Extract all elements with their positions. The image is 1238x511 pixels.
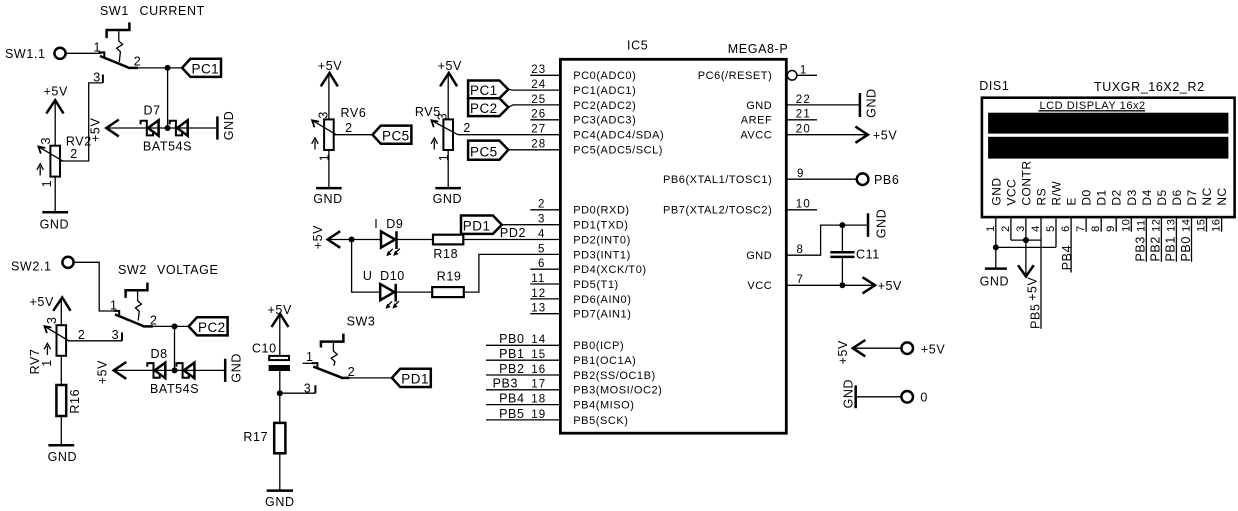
svg-text:2: 2: [134, 55, 142, 69]
resistor R16 body: [56, 385, 66, 416]
power +5V right arrow at pin 7: [863, 277, 876, 293]
svg-text:R16: R16: [68, 389, 82, 414]
svg-text:PD3(INT1): PD3(INT1): [573, 249, 631, 261]
capacitor C10 plate+: [269, 356, 289, 360]
svg-text:PD1: PD1: [463, 218, 491, 233]
svg-text:8: 8: [1090, 225, 1102, 232]
diode D8b schottky cathode: [176, 363, 188, 378]
svg-text:GND: GND: [40, 218, 70, 232]
wire D7 row: [106, 127, 217, 129]
svg-text:D9: D9: [386, 217, 403, 231]
wire LCD pin 7: [1085, 217, 1087, 232]
svg-text:PC1(ADC1): PC1(ADC1): [573, 85, 636, 97]
svg-text:SW2.1: SW2.1: [11, 260, 52, 274]
LED D9 emission arrows: [387, 249, 393, 254]
wire RV6 wiper to PC5: [334, 134, 373, 136]
svg-text:1: 1: [40, 359, 54, 367]
svg-text:D7: D7: [1185, 189, 1199, 205]
pad 0: [901, 391, 913, 403]
display DIS1 row 1 glass: [988, 113, 1228, 134]
resistor R17 body: [274, 423, 285, 453]
svg-text:VCC: VCC: [747, 280, 772, 292]
switch SW2 name label: [118, 263, 218, 277]
svg-text:CONTR: CONTR: [1019, 160, 1033, 205]
switch SW3 pin3 contact: [314, 385, 316, 393]
svg-text:1: 1: [40, 180, 54, 188]
svg-text:16: 16: [531, 364, 546, 376]
svg-text:3: 3: [112, 328, 120, 342]
svg-text:PB4: PB4: [499, 392, 524, 406]
svg-text:MEGA8-P: MEGA8-P: [728, 42, 788, 56]
svg-text:9: 9: [1105, 225, 1117, 232]
wire D9 to R18: [397, 239, 434, 241]
svg-text:D0: D0: [1080, 189, 1094, 205]
svg-text:+5V: +5V: [311, 225, 325, 249]
wire +5V to LED D9: [328, 239, 381, 241]
potentiometer RV7 pin1 arrow: [46, 346, 48, 355]
svg-text:GND: GND: [842, 379, 856, 409]
switch SW3 actuator bracket: [321, 334, 344, 348]
svg-text:D10: D10: [380, 269, 405, 283]
svg-text:PB2: PB2: [1149, 236, 1163, 261]
svg-text:AREF: AREF: [741, 115, 773, 127]
svg-text:+5V: +5V: [878, 279, 902, 293]
switch SW2 pin2 contact: [143, 325, 153, 328]
ground below RV5: [435, 187, 461, 190]
svg-text:R18: R18: [433, 247, 458, 261]
wire LCD pin 3: [1025, 217, 1027, 240]
diode D8a schottky cathode: [147, 363, 159, 378]
svg-text:PB0(ICP): PB0(ICP): [573, 340, 624, 352]
net flag PC5 at IC: [468, 141, 508, 160]
svg-text:TUXGR_16X2_R2: TUXGR_16X2_R2: [1094, 80, 1205, 94]
wire RV2 pin1 to ground: [54, 177, 56, 212]
wire node to SW3 pin3: [280, 392, 316, 394]
svg-text:3: 3: [45, 316, 59, 324]
wire LCD pin 8: [1100, 217, 1102, 232]
svg-text:BAT54S: BAT54S: [143, 140, 192, 154]
svg-text:2: 2: [348, 365, 356, 379]
svg-text:+5V: +5V: [1026, 276, 1040, 300]
junction dot D7 center: [165, 125, 171, 131]
net flag PD1 at IC: [461, 216, 502, 234]
switch SW2 lever: [115, 314, 144, 326]
svg-text:D8: D8: [151, 347, 168, 361]
svg-text:3: 3: [316, 111, 330, 119]
svg-text:R17: R17: [243, 430, 268, 444]
switch SW1 actuator bracket: [107, 22, 130, 38]
svg-text:PB1: PB1: [499, 347, 524, 361]
potentiometer RV6 pin1 arrow: [314, 141, 316, 150]
svg-text:0: 0: [920, 391, 928, 405]
svg-text:+5V: +5V: [873, 129, 897, 143]
resistor R19 body: [432, 287, 464, 297]
pad SW1.1: [54, 48, 65, 59]
svg-text:+5V: +5V: [96, 360, 110, 384]
junction dot LED supply node: [349, 237, 355, 243]
switch SW2 spring linkage: [135, 291, 141, 320]
ground below R17: [267, 489, 293, 492]
ground at D8 (rotated): [224, 359, 227, 382]
switch SW2 actuator bracket: [126, 283, 148, 298]
svg-text:24: 24: [531, 79, 546, 91]
svg-text:6: 6: [538, 258, 546, 270]
wire LCD pin 2: [1010, 217, 1012, 240]
wire LCD pin 15: [1206, 217, 1208, 232]
wire SW2.1 to SW2 pin 1: [74, 262, 113, 311]
svg-text:GND: GND: [313, 192, 343, 206]
switch SW1 pin2 contact: [128, 67, 138, 70]
svg-text:PD1(TXD): PD1(TXD): [573, 220, 628, 232]
wire PC2 flag to IC pin 25: [508, 105, 560, 107]
svg-text:PB1: PB1: [1164, 236, 1178, 261]
svg-text:28: 28: [531, 139, 546, 151]
svg-text:PC5(ADC5/SCL): PC5(ADC5/SCL): [573, 145, 663, 157]
ground below R16: [48, 444, 74, 447]
svg-text:PC3(ADC3): PC3(ADC3): [573, 115, 636, 127]
svg-text:13: 13: [531, 303, 546, 315]
LED D10 body: [380, 284, 394, 300]
switch SW3 spring linkage: [331, 343, 337, 366]
svg-text:1: 1: [800, 64, 808, 76]
wire stub pin 1: [797, 74, 817, 76]
wire C10 to node SW3.3: [279, 371, 281, 423]
svg-text:11: 11: [531, 273, 545, 285]
wire pin 7 to +5V: [786, 284, 874, 286]
svg-text:9: 9: [797, 168, 805, 180]
svg-text:BAT54S: BAT54S: [150, 382, 199, 396]
LED D10 emission arrows: [387, 302, 393, 307]
svg-text:PC2(ADC2): PC2(ADC2): [573, 100, 636, 112]
svg-text:2: 2: [78, 328, 86, 342]
wire stub pin 11: [530, 283, 560, 285]
diode D8a body: [155, 363, 166, 379]
svg-text:20: 20: [796, 124, 811, 136]
svg-text:PB3: PB3: [493, 377, 518, 391]
wire stub net PB0 pin 14: [486, 344, 560, 346]
svg-text:5: 5: [538, 243, 546, 255]
svg-text:12: 12: [1150, 219, 1162, 232]
svg-text:C10: C10: [252, 341, 277, 355]
potentiometer RV6 wiper arrow: [313, 121, 336, 135]
pad +5V: [901, 342, 913, 354]
wire SW2 pin3 to RV7 wiper: [68, 340, 122, 342]
ground at pin 22 (rotated): [859, 93, 862, 117]
svg-text:D3: D3: [1125, 189, 1139, 205]
svg-text:7: 7: [797, 274, 805, 286]
svg-text:R/W: R/W: [1050, 181, 1064, 206]
svg-text:PB5(SCK): PB5(SCK): [573, 415, 628, 427]
wire LCD pin 10: [1130, 217, 1132, 232]
svg-text:PC5: PC5: [470, 144, 498, 159]
wire SW2 pin2 to node PC2: [152, 325, 189, 327]
svg-text:PD0(RXD): PD0(RXD): [573, 205, 629, 217]
wire PC1 flag to IC pin 24: [508, 88, 560, 91]
potentiometer RV7 body: [57, 325, 67, 356]
svg-text:26: 26: [531, 109, 546, 121]
svg-text:D4: D4: [1140, 189, 1154, 205]
svg-text:3: 3: [304, 381, 312, 395]
diode D7b schottky cathode: [170, 121, 182, 136]
net flag PC5 at RV6: [373, 126, 412, 144]
junction dot C11 top: [839, 222, 845, 228]
svg-text:4: 4: [1030, 225, 1042, 232]
net flag PC1 at SW1: [182, 59, 221, 77]
svg-text:DIS1: DIS1: [979, 79, 1009, 93]
svg-text:PD2(INT0): PD2(INT0): [573, 234, 631, 246]
switch SW3 lever: [313, 367, 341, 378]
potentiometer RV2 pin1 arrow: [39, 167, 41, 176]
pad SW2.1: [62, 257, 73, 268]
svg-text:PB0: PB0: [499, 332, 524, 346]
wire LCD pin 4 net PB5: [1040, 217, 1042, 329]
wire LCD pin 16: [1221, 217, 1223, 232]
wire R16 to ground: [60, 416, 62, 445]
switch SW1 pin3 contact: [102, 75, 104, 83]
wire SW1.1 to SW1 pin 1: [66, 52, 101, 54]
wire +5V to C10: [279, 315, 281, 356]
display DIS1 row 2 glass: [988, 137, 1228, 159]
svg-text:PB7(XTAL2/TOSC2): PB7(XTAL2/TOSC2): [663, 205, 772, 217]
wire pin 22 to ground: [786, 104, 860, 106]
wire +5V to RV7 pin3: [60, 298, 62, 325]
wire stub pin 13: [530, 313, 560, 315]
wire PC5 flag to IC pin 28: [508, 149, 560, 151]
potentiometer RV7 wiper arrow: [46, 327, 69, 341]
svg-text:4: 4: [538, 228, 546, 240]
svg-text:RV5: RV5: [415, 105, 441, 119]
LED D10 cathode bar: [394, 284, 397, 302]
svg-text:AVCC: AVCC: [740, 130, 772, 142]
net flag PC1 at IC: [468, 81, 508, 99]
wire +5V to RV6 pin3: [328, 74, 330, 120]
svg-text:PC1: PC1: [470, 83, 498, 98]
wire LCD pin 9: [1115, 217, 1117, 232]
wire stub pin 26: [530, 119, 560, 121]
svg-text:PB4(MISO): PB4(MISO): [573, 400, 634, 412]
wire node PC2 down to D8: [174, 326, 176, 370]
svg-text:PB0: PB0: [1179, 236, 1193, 261]
diode D8b body: [184, 363, 195, 379]
wire stub net PB3 pin 17: [486, 389, 560, 391]
ground at pin 8 (rotated): [867, 213, 870, 237]
wire RV6 pin1 to ground: [328, 150, 330, 188]
svg-text:5: 5: [1045, 225, 1057, 232]
svg-text:15: 15: [1196, 219, 1208, 232]
wire LCD pin 6 net PB4: [1070, 217, 1072, 273]
svg-text:+5V: +5V: [30, 295, 54, 309]
svg-text:PB4: PB4: [1060, 245, 1074, 270]
svg-text:GND: GND: [746, 250, 772, 262]
svg-text:22: 22: [796, 94, 811, 106]
svg-text:21: 21: [796, 109, 811, 121]
svg-text:D2: D2: [1110, 189, 1124, 205]
wire LCD ground rail: [996, 246, 1056, 248]
svg-text:RV6: RV6: [341, 106, 367, 120]
wire pin 8 to ground/C11: [786, 225, 868, 255]
wire SW1 pin3 to RV2 wiper: [60, 83, 103, 161]
svg-text:GND: GND: [980, 275, 1010, 289]
wire C11 top lead: [841, 225, 843, 251]
svg-text:2: 2: [150, 314, 158, 328]
svg-text:IC5: IC5: [627, 39, 648, 53]
svg-text:GND: GND: [746, 100, 772, 112]
wire stub pin 10: [786, 209, 817, 211]
wire SW3 pin2 to PD1: [349, 377, 393, 379]
svg-text:2: 2: [463, 121, 471, 135]
diode D7b body: [177, 120, 188, 136]
svg-text:2: 2: [70, 147, 78, 161]
capacitor C11 plates: [830, 251, 854, 254]
svg-text:PB1(OC1A): PB1(OC1A): [573, 355, 636, 367]
svg-text:3: 3: [1015, 225, 1027, 232]
svg-text:PD6(AIN0): PD6(AIN0): [573, 294, 631, 306]
switch SW3 pin2 contact: [341, 377, 350, 380]
svg-text:SW3: SW3: [347, 315, 376, 329]
svg-text:2: 2: [538, 199, 546, 211]
switch SW1 lever: [100, 56, 129, 68]
wire LCD pin 14 net PB0: [1191, 217, 1193, 262]
svg-text:U: U: [363, 269, 373, 283]
svg-text:14: 14: [531, 334, 546, 346]
svg-text:12: 12: [531, 288, 546, 300]
junction dot node PC2: [172, 323, 178, 329]
svg-text:PD5(T1): PD5(T1): [573, 279, 618, 291]
svg-text:11: 11: [1135, 219, 1147, 232]
potentiometer RV5 pin1 arrow: [433, 141, 435, 150]
wire stub pin 2: [530, 209, 560, 211]
svg-text:PC5: PC5: [382, 129, 410, 144]
svg-text:CURRENT: CURRENT: [140, 4, 205, 18]
capacitor C10 plate-: [269, 365, 290, 371]
junction dot node SW3.3: [277, 390, 283, 396]
svg-text:PB5: PB5: [1028, 303, 1042, 328]
wire LCD pin 13 net PB1: [1175, 217, 1177, 262]
svg-text:NC: NC: [1200, 187, 1214, 205]
ground at D7 (rotated): [216, 116, 219, 139]
power +5V right arrow at pin 20: [855, 127, 868, 143]
junction dot D8 center: [172, 367, 178, 373]
switch SW2 pin3 contact: [121, 333, 123, 341]
svg-text:14: 14: [1181, 219, 1193, 232]
svg-text:SW1: SW1: [100, 4, 129, 18]
LED D9 body: [381, 231, 395, 247]
svg-text:GND: GND: [433, 192, 463, 206]
wire LCD pin 5: [1055, 217, 1057, 247]
svg-text:PC0(ADC0): PC0(ADC0): [573, 70, 636, 82]
svg-text:+5V: +5V: [44, 85, 68, 99]
potentiometer RV6 body: [324, 119, 334, 150]
potentiometer RV5 body: [443, 119, 453, 150]
svg-text:C11: C11: [856, 247, 880, 261]
wire RV5 pin1 to ground: [447, 150, 449, 188]
svg-text:3: 3: [538, 214, 546, 226]
wire LCD pin 1 to ground: [995, 217, 997, 269]
wire R19 to IC pin 5: [464, 254, 561, 292]
wire RV5 wiper to IC pin 27: [458, 134, 561, 136]
svg-text:VCC: VCC: [1004, 179, 1018, 206]
svg-text:GND: GND: [989, 177, 1003, 205]
wire +5V arrow to pad: [853, 347, 901, 349]
potentiometer RV5 wiper arrow: [433, 121, 458, 135]
svg-text:8: 8: [797, 244, 805, 256]
svg-text:D1: D1: [1095, 189, 1109, 205]
svg-text:SW1.1: SW1.1: [5, 47, 46, 61]
svg-text:GND: GND: [48, 450, 78, 464]
svg-text:GND: GND: [265, 495, 295, 509]
svg-text:13: 13: [1165, 219, 1177, 232]
wire stub net PB5 pin 19: [486, 419, 560, 421]
svg-text:GND: GND: [874, 209, 888, 239]
wire pin 20 to +5V: [786, 134, 867, 136]
svg-text:16: 16: [1211, 219, 1223, 232]
svg-text:GND: GND: [865, 88, 879, 118]
wire stub pin 12: [530, 298, 560, 300]
svg-text:7: 7: [1075, 225, 1087, 232]
svg-text:NC: NC: [1215, 187, 1229, 205]
LED D9 cathode bar: [395, 231, 398, 249]
switch SW1 spring linkage: [117, 31, 123, 62]
svg-text:18: 18: [531, 394, 546, 406]
wire stub pin 23: [530, 74, 560, 76]
svg-text:PD1: PD1: [401, 372, 429, 387]
svg-text:1: 1: [985, 225, 997, 232]
svg-text:PC4(ADC4/SDA): PC4(ADC4/SDA): [573, 130, 664, 142]
wire LCD VCC rail: [1011, 239, 1041, 241]
wire stub net PB4 pin 18: [486, 404, 560, 406]
svg-text:VOLTAGE: VOLTAGE: [157, 263, 218, 277]
svg-text:PD2: PD2: [500, 226, 526, 240]
wire PD1 flag to IC pin 3: [502, 224, 561, 226]
pad PB6: [857, 173, 869, 185]
svg-text:3: 3: [39, 137, 53, 145]
wire stub pin 21: [786, 119, 817, 121]
svg-text:D6: D6: [1170, 189, 1184, 205]
svg-text:+5V: +5V: [438, 59, 462, 73]
wire R18 to IC pin 4: [463, 239, 560, 241]
svg-text:GND: GND: [230, 353, 244, 383]
svg-text:PB2(SS/OC1B): PB2(SS/OC1B): [573, 370, 655, 382]
net flag PD1 at SW3: [392, 369, 431, 387]
wire R17 to ground: [279, 453, 281, 490]
display DIS1 body: [982, 98, 1235, 217]
wire stub net PB1 pin 15: [486, 359, 560, 361]
svg-text:2: 2: [345, 121, 353, 135]
svg-text:SW2: SW2: [118, 263, 147, 277]
svg-text:10: 10: [1120, 219, 1132, 232]
svg-text:10: 10: [796, 199, 811, 211]
resistor R18 body: [433, 235, 463, 245]
wire SW1 pin2 to node PC1: [137, 67, 183, 69]
svg-text:D7: D7: [144, 104, 161, 118]
svg-text:E: E: [1065, 197, 1079, 206]
svg-text:17: 17: [531, 379, 546, 391]
svg-text:19: 19: [531, 409, 546, 421]
svg-text:+5V: +5V: [89, 118, 103, 142]
wire D10 to R19: [396, 291, 433, 293]
svg-text:PB3(MOSI/OC2): PB3(MOSI/OC2): [573, 385, 662, 397]
svg-text:PD4(XCK/T0): PD4(XCK/T0): [573, 264, 646, 276]
svg-text:PD7(AIN1): PD7(AIN1): [573, 309, 631, 321]
svg-text:15: 15: [531, 349, 546, 361]
net flag PC2 at SW2: [189, 317, 228, 335]
svg-text:PC2: PC2: [198, 320, 226, 335]
svg-text:R19: R19: [437, 270, 462, 284]
svg-text:PC2: PC2: [470, 101, 498, 116]
net flag PC2 at IC: [468, 98, 508, 116]
ground below RV6: [316, 187, 342, 190]
power +5V down arrow at LCD: [1025, 240, 1027, 276]
